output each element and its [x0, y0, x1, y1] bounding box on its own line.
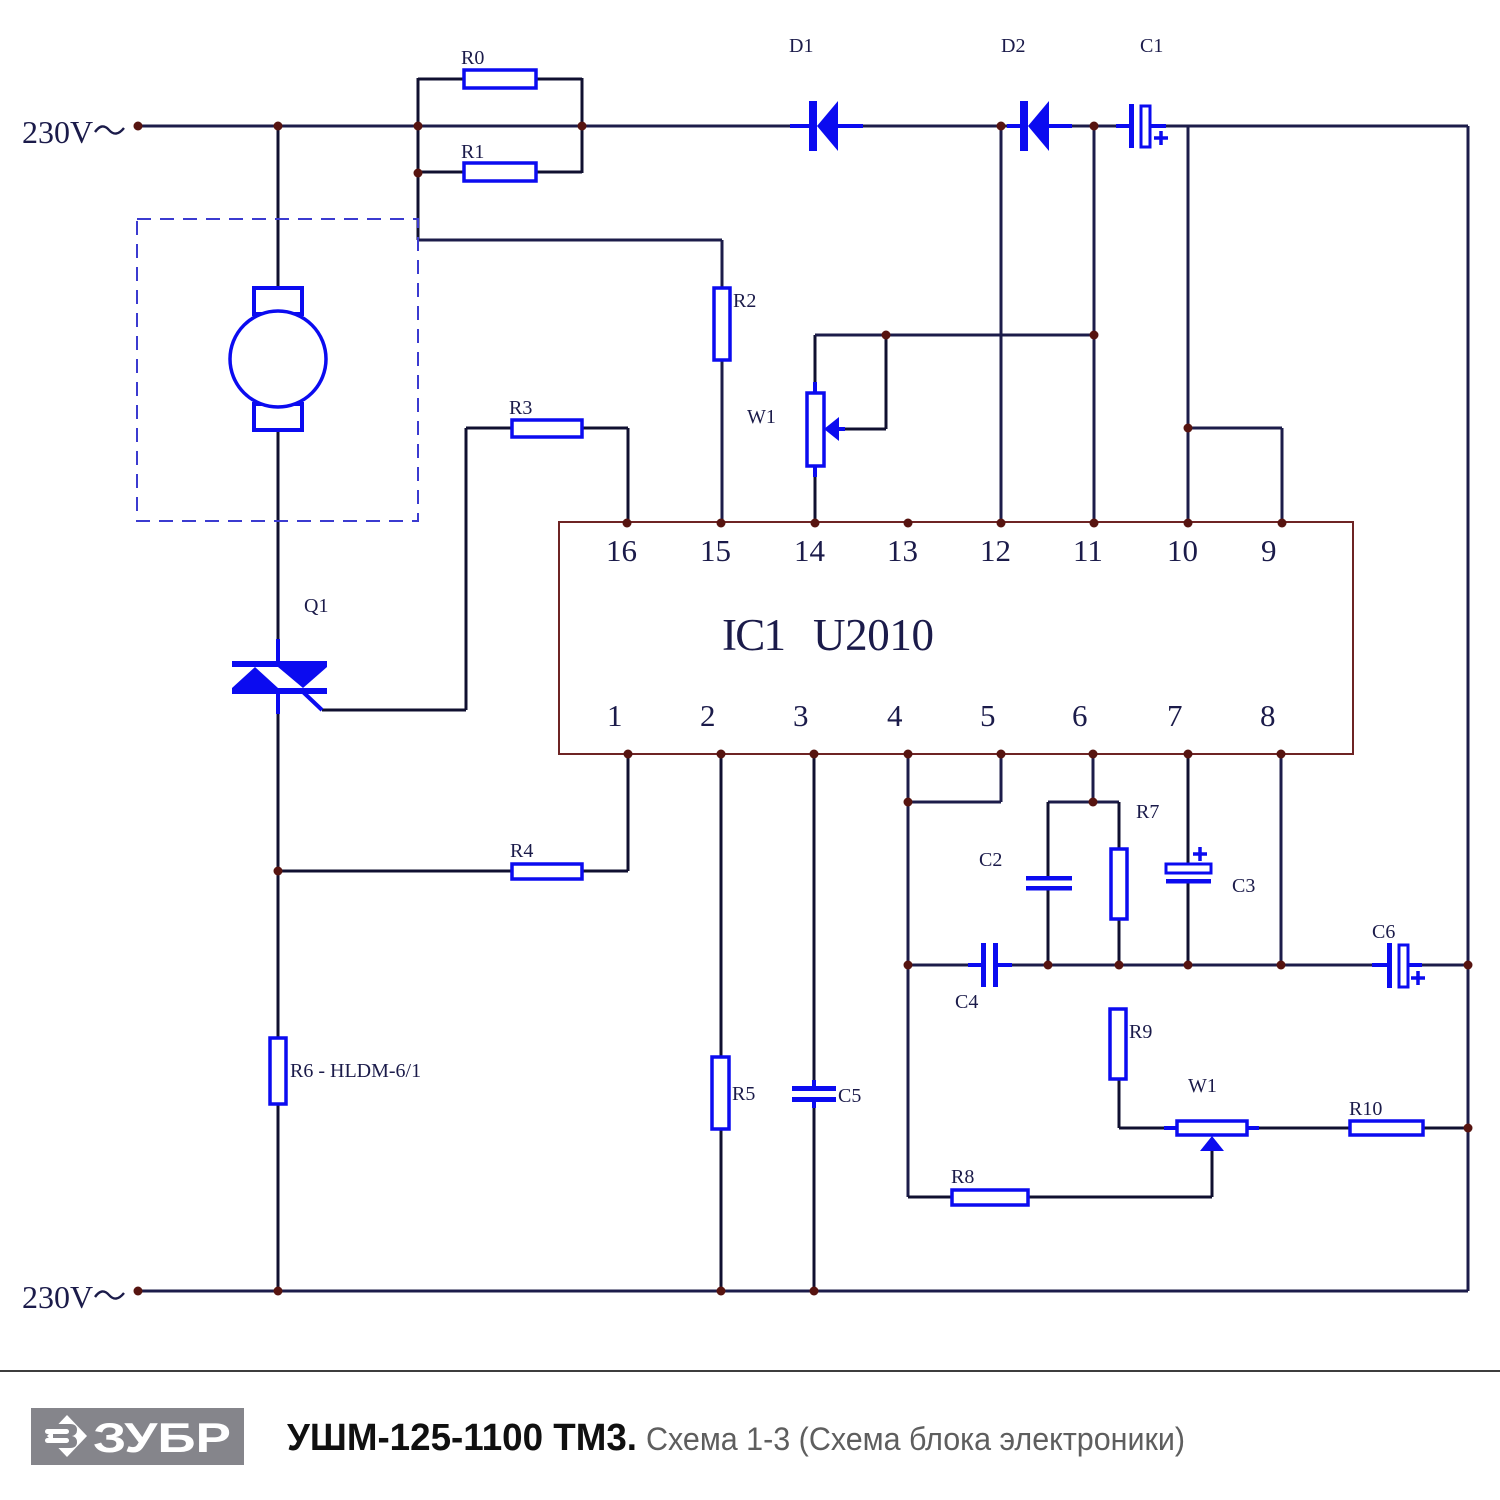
svg-text:230V: 230V [22, 1279, 93, 1315]
svg-text:1: 1 [607, 698, 623, 733]
svg-text:R0: R0 [461, 47, 484, 69]
svg-text:2: 2 [700, 698, 716, 733]
svg-text:D2: D2 [1001, 35, 1025, 57]
capacitor C3 [1166, 847, 1255, 897]
svg-text:14: 14 [794, 533, 826, 568]
wire pin8 column [1280, 754, 1283, 965]
wire pin9 branch [1188, 428, 1282, 523]
wire pin3 column C5 [813, 754, 816, 1291]
resistor R3 [509, 397, 582, 437]
svg-text:R7: R7 [1136, 801, 1159, 823]
diode D1 [789, 35, 863, 151]
wire motor column [277, 126, 280, 1291]
svg-text:230V: 230V [22, 114, 93, 150]
capacitor C5 [792, 1080, 861, 1108]
svg-text:УШМ-125-1100 ТМ3.: УШМ-125-1100 ТМ3. [287, 1417, 637, 1459]
svg-text:12: 12 [980, 533, 1011, 568]
svg-text:D1: D1 [789, 35, 813, 57]
wire pin12 column [1000, 126, 1003, 523]
resistor R9 [1110, 1009, 1152, 1079]
svg-text:R5: R5 [732, 1083, 755, 1105]
resistor R10 [1349, 1098, 1423, 1135]
wire R4 net pin1 [278, 754, 628, 871]
svg-text:16: 16 [606, 533, 637, 568]
resistor R8 [951, 1166, 1028, 1205]
svg-text:R10: R10 [1349, 1098, 1382, 1120]
wire W1 to R10 [1258, 1127, 1468, 1130]
wire W1 wiper to node [842, 335, 886, 429]
svg-text:R9: R9 [1129, 1021, 1152, 1043]
svg-text:W1: W1 [1188, 1075, 1217, 1097]
svg-text:11: 11 [1073, 533, 1103, 568]
wire bottom rail [138, 1290, 1468, 1293]
svg-text:13: 13 [887, 533, 918, 568]
diode D2 [1001, 35, 1072, 151]
wire R7 column [1118, 802, 1121, 965]
wire W1 top column to pin14 [814, 335, 817, 523]
capacitor C2 [979, 849, 1072, 891]
capacitor C6 [1372, 921, 1425, 988]
wire R0 R1 parallel block [418, 78, 582, 240]
logo ZUBR box [31, 1408, 244, 1465]
svg-text:U2010: U2010 [813, 610, 934, 660]
wire pin11 column [1093, 126, 1096, 523]
svg-text:R6 - HLDM-6/1: R6 - HLDM-6/1 [290, 1060, 421, 1082]
resistor R1 [461, 141, 536, 181]
svg-text:Схема 1-3 (Схема блока электро: Схема 1-3 (Схема блока электроники) [646, 1421, 1185, 1457]
svg-text:9: 9 [1261, 533, 1277, 568]
svg-text:R3: R3 [509, 397, 532, 419]
capacitor C1 [1116, 35, 1168, 148]
wire right rail [1467, 126, 1470, 1291]
svg-text:C5: C5 [838, 1085, 861, 1107]
svg-text:C1: C1 [1140, 35, 1163, 57]
wire R8 net wiper [908, 1150, 1212, 1197]
capacitor C4 [955, 943, 1012, 1013]
wire triac gate to R3 to pin16 [322, 428, 628, 710]
wire pin10 column [1187, 126, 1190, 523]
resistor R5 [712, 1057, 755, 1129]
resistor R2 [714, 288, 756, 360]
potentiometer W1 upper [747, 382, 845, 477]
svg-text:C3: C3 [1232, 875, 1255, 897]
wire bus y965 [908, 964, 1468, 967]
wire top rail [138, 125, 1468, 128]
node 230V bottom label [22, 1279, 124, 1315]
wire pin4 column [907, 754, 910, 1197]
wire horizontal y335 [815, 334, 1094, 337]
potentiometer W1 lower [1164, 1075, 1259, 1151]
svg-text:ЗУБР: ЗУБР [93, 1414, 231, 1461]
wire pin7 column C3 [1187, 754, 1190, 965]
motor M [230, 288, 326, 430]
resistor R4 [510, 840, 582, 879]
resistor R7 [1111, 801, 1159, 919]
wire pin5 jog [908, 754, 1001, 802]
svg-text:Q1: Q1 [304, 595, 328, 617]
footer separator [0, 1370, 1500, 1372]
svg-text:W1: W1 [747, 406, 776, 428]
svg-text:15: 15 [700, 533, 731, 568]
svg-text:R8: R8 [951, 1166, 974, 1188]
triac Q1 [232, 595, 328, 714]
wire pin6 jog [1048, 754, 1119, 802]
wire R9 to W1 [1119, 1079, 1166, 1128]
svg-text:IC1: IC1 [722, 610, 786, 660]
svg-text:5: 5 [980, 698, 996, 733]
svg-text:R2: R2 [733, 290, 756, 312]
IC1 U2010 box [559, 522, 1353, 754]
svg-text:3: 3 [793, 698, 809, 733]
svg-text:8: 8 [1260, 698, 1276, 733]
svg-text:C4: C4 [955, 991, 978, 1013]
wire R1 to R2 to pin15 [418, 240, 722, 523]
svg-text:C6: C6 [1372, 921, 1395, 943]
resistor R0 [461, 47, 536, 88]
svg-text:7: 7 [1167, 698, 1183, 733]
motor box dashed [137, 219, 418, 521]
resistor R6 HLDM-6/1 [270, 1038, 421, 1104]
svg-text:R4: R4 [510, 840, 533, 862]
svg-text:10: 10 [1167, 533, 1198, 568]
wire C2 column [1047, 802, 1050, 965]
svg-text:4: 4 [887, 698, 903, 733]
svg-text:6: 6 [1072, 698, 1088, 733]
svg-text:R1: R1 [461, 141, 484, 163]
node 230V top label [22, 114, 124, 150]
svg-text:C2: C2 [979, 849, 1002, 871]
wire pin2 column R5 [720, 754, 723, 1291]
